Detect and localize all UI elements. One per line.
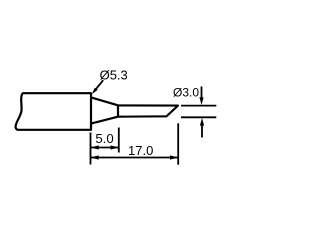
svg-text:Ø3.0: Ø3.0 bbox=[173, 86, 199, 100]
tip rod with bevel end bbox=[118, 105, 178, 116]
svg-text:Ø5.3: Ø5.3 bbox=[100, 68, 128, 83]
dimension line 5.0 bbox=[91, 147, 119, 149]
label Ø5.3 bbox=[100, 68, 128, 83]
extension line bottom (tip diameter) bbox=[181, 116, 216, 118]
svg-text:5.0: 5.0 bbox=[95, 131, 113, 146]
leader arrowhead Ø5.3 bbox=[92, 88, 98, 95]
dimension line 17.0 bbox=[91, 157, 179, 159]
label Ø3.0 bbox=[173, 86, 199, 100]
leader line Ø5.3 bbox=[94, 80, 103, 91]
svg-text:17.0: 17.0 bbox=[128, 143, 153, 158]
right arrowhead 5.0 bbox=[111, 145, 119, 149]
right arrowhead 17.0 bbox=[170, 155, 178, 159]
label 5.0 bbox=[95, 131, 113, 146]
extension line left (shared, at taper start) bbox=[90, 133, 92, 165]
up arrow shaft Ø3.0 bbox=[201, 125, 203, 138]
down arrow shaft Ø3.0 bbox=[201, 87, 203, 99]
shank body outline with break line bbox=[16, 93, 91, 130]
down arrowhead Ø3.0 bbox=[199, 97, 203, 105]
up arrowhead Ø3.0 bbox=[200, 118, 204, 126]
extension line right of 17.0 (tip end) bbox=[177, 123, 179, 164]
left arrowhead 17.0 bbox=[91, 155, 99, 159]
extension line right of 5.0 (taper end) bbox=[118, 128, 120, 153]
taper cone bbox=[91, 97, 118, 123]
left arrowhead 5.0 bbox=[91, 145, 99, 149]
label 17.0 bbox=[128, 143, 153, 158]
extension line top (tip diameter) bbox=[181, 105, 216, 107]
